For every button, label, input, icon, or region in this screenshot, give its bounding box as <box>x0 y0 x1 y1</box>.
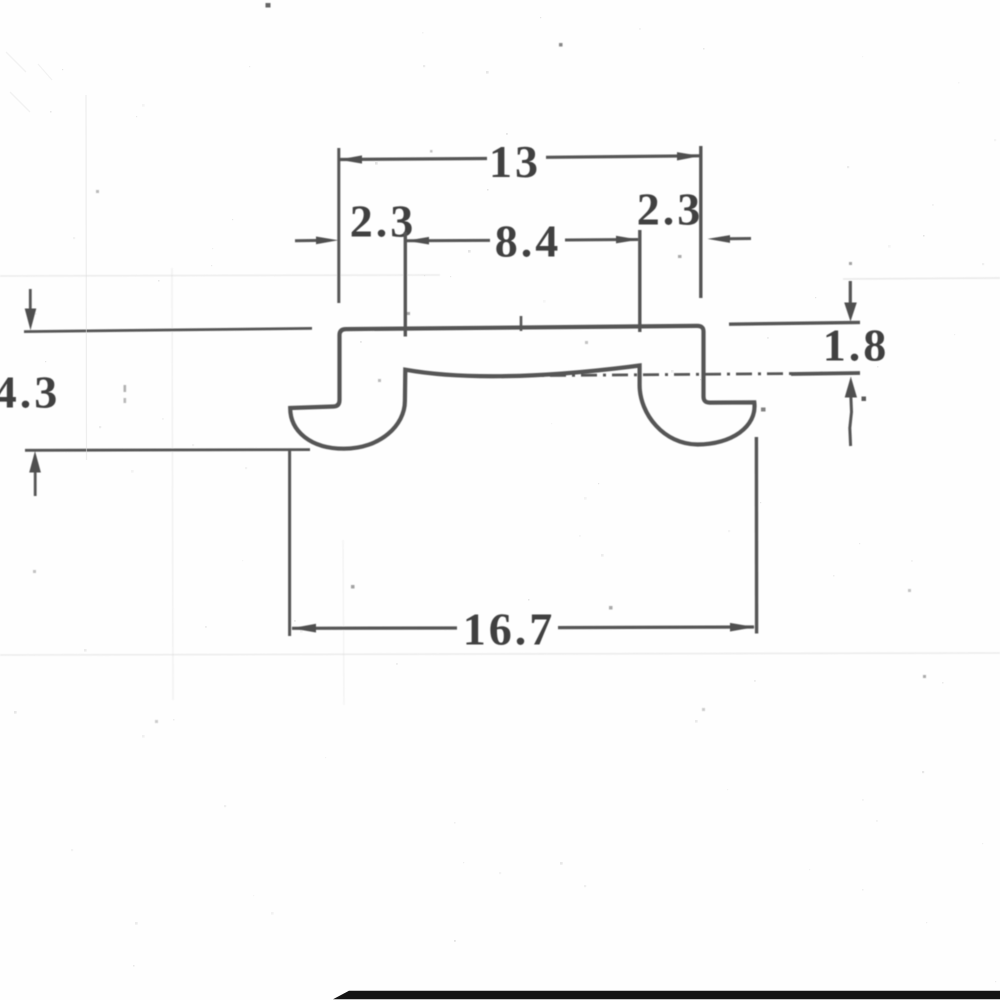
dimension 8.4 arrowhead left <box>407 237 430 245</box>
svg-text:4.3: 4.3 <box>0 367 60 418</box>
dimension 16.7 arrowhead left <box>292 624 317 633</box>
dimension 4.3 bottom reference line <box>25 448 310 451</box>
dimension 8.4 extension line right <box>638 230 641 332</box>
dimension 13 line right segment <box>546 156 700 158</box>
faint scanner streak vertical x=343 <box>343 540 344 705</box>
tick on top surface <box>520 316 523 331</box>
dimension 8.4 arrowhead right <box>616 236 639 244</box>
dimension 16.7 extension line right <box>755 437 759 634</box>
dimension 1.8 down arrowhead <box>844 303 857 322</box>
dimension 1.8 up arrow shaft <box>850 398 852 447</box>
svg-text:8.4: 8.4 <box>495 216 562 267</box>
dimension 13 extension line left <box>337 148 340 303</box>
svg-text:16.7: 16.7 <box>463 604 556 655</box>
dimension 2.3 right outside arrowhead <box>708 235 731 243</box>
svg-text:1.8: 1.8 <box>823 320 890 371</box>
dimension 13 arrowhead right <box>677 152 700 160</box>
dimension 2.3 right outside arrow line <box>728 237 751 240</box>
profile outline <box>290 326 754 449</box>
dimension 2.3 left outside arrowhead <box>316 237 338 245</box>
dimension 16.7 extension line left <box>288 451 291 636</box>
speck near 1.8 arrow <box>862 397 867 402</box>
svg-text:13: 13 <box>489 136 541 187</box>
dimension 4.3 up arrowhead <box>29 451 41 473</box>
dimension 2.3 left outside arrow line <box>295 239 320 242</box>
dimension 13 extension line right <box>699 146 702 298</box>
dimension 8.4 line left segment <box>407 239 490 242</box>
svg-text:2.3: 2.3 <box>637 184 704 235</box>
dimension 8.4 line right segment <box>565 238 638 242</box>
dimension 4.3 down arrow shaft <box>29 289 32 310</box>
dimension 16.7 line left segment <box>292 626 457 629</box>
dimension 1.8 up arrowhead <box>845 377 857 398</box>
dimension 1.8 top reference line <box>729 322 860 324</box>
scan speck dots <box>33 3 926 723</box>
faint scanner streak horizontal y=654 <box>0 653 1000 655</box>
dimension 1.8 bottom reference line <box>791 373 860 374</box>
dimension 1.8 down arrow shaft <box>849 281 852 304</box>
scanner black edge bar <box>333 991 1000 999</box>
dimension 16.7 line right segment <box>558 625 754 629</box>
dimension 13 arrowhead left <box>339 155 362 163</box>
faint scratches top-left <box>6 52 52 112</box>
dimension 13 line left segment <box>340 159 487 160</box>
faint vertical streak x=86 <box>85 95 88 460</box>
faint scanner streak horizontal y=279 right <box>843 278 1000 279</box>
dimension 4.3 up arrow shaft <box>34 473 37 497</box>
centre dash-dot line <box>488 373 860 376</box>
faint scanner streak vertical x=172 <box>172 268 173 700</box>
dimension 8.4 extension line left <box>404 232 407 337</box>
dimension 16.7 arrowhead right <box>730 623 755 632</box>
faint scanner streak horizontal y=276 <box>0 275 440 276</box>
dimension 4.3 top reference line <box>24 328 312 331</box>
dimension 4.3 down arrowhead <box>25 309 37 331</box>
